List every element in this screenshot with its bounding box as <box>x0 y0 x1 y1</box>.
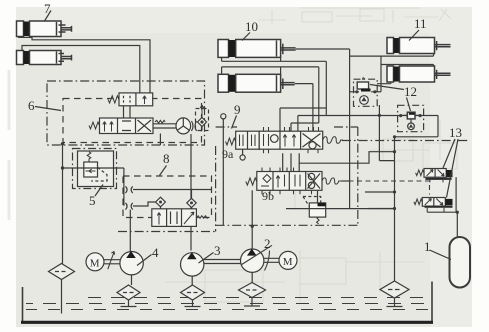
label 11 <box>409 16 427 41</box>
valve 9 port stubs <box>264 127 319 153</box>
valve 9a pilot section <box>221 114 260 226</box>
cylinder 10 lower <box>218 74 295 92</box>
wire: main pressure gallery <box>286 208 396 210</box>
filter F5 <box>380 281 409 307</box>
svg-text:M: M <box>283 256 293 268</box>
svg-text:9b: 9b <box>262 189 274 203</box>
wire: staircase pipes to valve 9 <box>280 49 438 209</box>
reducing valve 5 <box>63 149 124 189</box>
wire: coupling lower to pump 4 <box>129 210 131 251</box>
svg-text:13: 13 <box>449 125 462 140</box>
valve 9b directional valve <box>246 172 341 191</box>
cylinder 7 lower <box>17 51 72 65</box>
check valve in dashed box (block 6) <box>196 105 209 131</box>
wire: tank return through block 6 bottom <box>61 142 64 263</box>
svg-text:4: 4 <box>152 245 159 260</box>
pump 3 <box>181 252 204 285</box>
valve A: pilot directional valve in block 6 <box>108 93 153 118</box>
relief valve feed stub <box>317 190 319 203</box>
wire: cylinder 7 ports to valve block 6 <box>19 37 150 93</box>
wire: couplings feed line <box>123 168 125 206</box>
cylinder 7 upper <box>17 21 72 37</box>
label 12 <box>370 84 417 111</box>
check valve CV1 <box>156 197 166 209</box>
wire: 12b to lower gallery <box>393 115 438 153</box>
wire: valve 13b outlet to accumulator <box>369 209 459 238</box>
svg-text:7: 7 <box>44 1 51 16</box>
balance valve 12b <box>398 105 424 131</box>
label 2 <box>264 236 271 271</box>
cylinder 10 upper <box>218 40 296 58</box>
label 9 <box>232 102 241 129</box>
svg-text:1: 1 <box>424 239 431 254</box>
label 4 <box>137 245 159 266</box>
svg-text:3: 3 <box>214 243 221 258</box>
filter F1 <box>49 264 75 314</box>
svg-text:9a: 9a <box>222 147 234 161</box>
wire: CV2 line to box edge <box>192 189 212 191</box>
svg-text:9: 9 <box>234 102 241 117</box>
wire: pilot dashed line to valves 13 <box>340 181 430 195</box>
wire: 9b tank line <box>299 152 394 164</box>
coupling at wheel <box>192 121 197 131</box>
enclosure 6 inner dashed box <box>63 99 202 143</box>
wire: cylinder 10 linking pipes <box>222 57 327 74</box>
solenoid valve 13b <box>414 198 453 213</box>
accumulator 1 <box>450 237 471 288</box>
solenoid valve 13a <box>416 169 457 213</box>
tandem shaft pump3-pump2 <box>204 260 241 264</box>
wire: cylinder 11 pipes <box>350 54 434 92</box>
filter F4 <box>117 285 140 307</box>
filter F3 <box>181 285 205 307</box>
pump 4 <box>120 251 143 285</box>
cylinder 11 upper <box>387 38 451 54</box>
svg-text:10: 10 <box>245 19 258 34</box>
coupling pair lower (box 8) <box>126 203 133 210</box>
enclosure dash-dot lines <box>118 127 470 232</box>
valve 9 main directional valve <box>259 131 343 149</box>
shaft pump2-motor M2 <box>264 258 279 262</box>
motor M4 <box>86 252 120 271</box>
label 6 <box>28 98 61 113</box>
hand wheel <box>176 118 191 134</box>
cylinder 11 lower <box>387 66 451 82</box>
wire: coupling lower to check valve CV1 <box>133 202 156 206</box>
pump 2 <box>241 245 273 282</box>
filter F2 <box>239 283 266 307</box>
label 13 <box>443 125 462 198</box>
label 10 <box>242 19 258 41</box>
svg-text:12: 12 <box>404 84 417 99</box>
label 3 <box>199 243 221 263</box>
wire: 9b spring side line <box>341 180 350 182</box>
svg-text:2: 2 <box>264 236 271 251</box>
svg-text:5: 5 <box>89 193 96 208</box>
enclosure 6 dash-dot box <box>47 81 205 145</box>
valve B: 4/3 manual directional valve in block 6 <box>89 118 176 134</box>
wire: cylinder 10 rod-side pipes <box>295 49 350 84</box>
valve 9b port stubs <box>262 168 312 195</box>
tank fluid level dashes <box>26 298 428 310</box>
svg-text:6: 6 <box>28 98 35 113</box>
enclosure 8 dashed box <box>123 176 212 218</box>
label 1 <box>424 239 451 260</box>
balance valve 12a <box>352 78 377 107</box>
svg-text:11: 11 <box>414 16 427 31</box>
check valve CV2 <box>187 198 196 209</box>
label 8 <box>160 151 170 176</box>
pilot relief valve <box>303 197 326 224</box>
wire: pump 2 pressure riser <box>251 190 254 249</box>
svg-text:8: 8 <box>163 151 170 166</box>
label 5 <box>89 185 103 209</box>
svg-text:M: M <box>90 257 100 269</box>
valve C in box 8 <box>152 209 209 227</box>
wire: 12a to riser and cylinder 11 <box>350 82 395 161</box>
wire: valve B to pump 3 riser <box>190 134 192 251</box>
wire: riser to filter F5 <box>365 137 396 281</box>
wire: coupling upper to check valve CV2 <box>133 190 192 199</box>
coupling pair upper (box 8) <box>126 186 133 193</box>
motor M2 <box>279 251 297 269</box>
tank <box>23 282 433 322</box>
wire: stack lines valve 9 to 9b <box>283 153 300 171</box>
wire: valve B drain stub <box>159 134 161 146</box>
label 7 <box>44 1 51 21</box>
